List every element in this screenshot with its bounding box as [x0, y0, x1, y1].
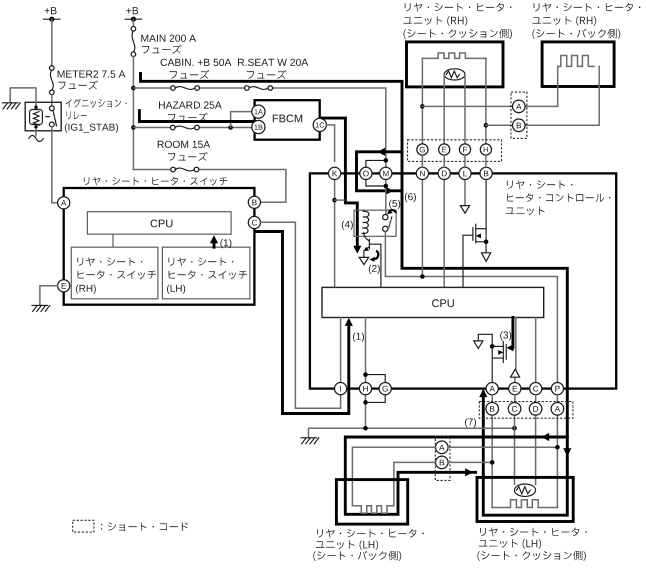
label sw RH line1 [77, 257, 142, 266]
thick signal path (1) switch to control CPU [256, 232, 349, 414]
short connector dotted box (LH) [435, 436, 450, 480]
heater unit LH back box [336, 480, 407, 524]
wire ground rail (thermistor/thermostat common) [309, 428, 515, 437]
connector dotted box (7) [479, 402, 573, 419]
wire D to CPU [443, 180, 445, 288]
pin K [329, 167, 341, 179]
wire relay coil bottom to body ground [35, 129, 37, 136]
legend short-connector symbol [73, 520, 94, 532]
junction H line on ground rail [363, 426, 368, 431]
pin D (connector 7) [529, 403, 542, 416]
wire MOSFET source to ground triangle [485, 242, 487, 253]
wire junction to short connector B [486, 124, 513, 126]
heater unit LH cushion box [477, 477, 573, 521]
wires connector GEFH to control pins [422, 155, 486, 167]
wire CPU to pin C [535, 318, 537, 383]
fuse ROOM 15A [171, 167, 199, 172]
sensor loop H-G bottom [366, 395, 386, 403]
thick current jog around relay contacts O-M [357, 152, 403, 191]
ground triangle (MOSFET 3) [474, 341, 483, 349]
thermostat RH cushion [444, 69, 465, 80]
pin I [335, 383, 347, 395]
junction MOSFET 3 drain [490, 344, 495, 349]
pin B (connector 7) [486, 403, 499, 416]
fuse R.SEAT W 20A [245, 86, 273, 91]
ground triangle (MOSFET B) [482, 253, 491, 262]
flow arrow left on jog top [377, 148, 385, 156]
junction H loop top [363, 372, 368, 377]
wire relay contact (5) output to pin P [385, 232, 557, 383]
label RH back unit line2 [532, 16, 596, 26]
pin P [551, 383, 563, 395]
wire M line from fuse row1 through contacts [385, 158, 387, 214]
junction K line to coil feed [332, 198, 344, 203]
wire 1C to control unit pin K [326, 125, 334, 161]
heater element RH cushion [422, 53, 486, 58]
wire connector B LH right to B7 line [448, 461, 492, 463]
wire H sensor line [365, 318, 367, 429]
ground triangle (transistor 2) [359, 257, 368, 264]
wire IG1 relay output down to switch pin A [52, 127, 58, 203]
wire CPU to RH switch [112, 234, 114, 247]
ignition relay box [25, 102, 61, 131]
relay box (4)(5) [354, 210, 396, 236]
label control unit line1 [507, 180, 573, 189]
label ignition relay line1 [65, 99, 126, 108]
label sw RH line2 [78, 270, 157, 279]
actuation arrow (5) [387, 209, 396, 214]
label RH cushion unit line1 [405, 3, 512, 12]
relay contact bypass loop O-M [366, 160, 386, 186]
label LH cushion unit line2 [479, 539, 541, 549]
flow arrow down near heater LH [563, 448, 571, 456]
thick current path HAZARD feed [139, 111, 254, 122]
heater switch RH sub-box [71, 247, 158, 299]
rear seat heater control unit box [310, 173, 616, 388]
pin C (control) [530, 383, 542, 395]
wire E pin to connector C7 and thermostat [514, 395, 516, 485]
label RH back unit line1 [534, 3, 641, 12]
ground (rail) [301, 438, 319, 444]
fuse HAZARD 25A [171, 125, 200, 130]
wire K to CPU [334, 180, 336, 288]
actuation arrow (2) [369, 251, 378, 262]
label LH cushion unit line3 [477, 551, 586, 561]
sensor loop H-G top [366, 375, 386, 383]
pin H [359, 383, 371, 395]
thick current loop to LH back heater [345, 437, 567, 514]
rear seat heater switch box [64, 188, 255, 305]
relay coil (ignition relay) [30, 105, 43, 129]
wire CPU to signal triangle above E [514, 318, 517, 383]
label METER2 fuse jp [58, 80, 98, 89]
FBCM box [255, 100, 320, 140]
wire P pin to connector A7 and element [556, 395, 558, 508]
label LH back unit line3 [313, 551, 401, 561]
wire row2 junction up to FBCM 1A [231, 112, 252, 128]
pin M [380, 167, 392, 179]
wire +B right to MAIN fuse [132, 19, 134, 26]
wire RH back element to connector A [525, 66, 558, 106]
wire fuse row3 ROOM to switch pin B [133, 170, 286, 203]
fuse CABIN. +B 50A [171, 86, 200, 91]
pin E (control) [509, 383, 521, 395]
short connector pin A (RH) [513, 100, 526, 113]
pin O [360, 167, 372, 179]
label RH cushion unit line3 [404, 29, 513, 39]
junction cushion element to connector A [420, 104, 425, 109]
pin G (control) [379, 383, 391, 395]
transistor Q (2) [364, 233, 370, 258]
wire junction to short connector A [422, 105, 512, 107]
label LH cushion unit line1 [480, 528, 587, 537]
wire I to CPU [340, 318, 342, 383]
heater unit RH cushion box [407, 42, 504, 87]
CPU box (control unit) [322, 287, 544, 317]
label legend text [101, 522, 188, 531]
pin H (connector) [480, 144, 491, 155]
label RH cushion unit line2 [404, 16, 468, 26]
pin N [416, 167, 428, 179]
short connector dotted box (RH) [511, 92, 527, 138]
label RH back unit line3 [532, 29, 620, 39]
MOSFET (B channel heater RH) [463, 224, 486, 287]
wire connector A LH right to A7 line [448, 446, 557, 448]
fuse MAIN 200 A [131, 27, 136, 57]
junction main bus row2 [131, 125, 136, 130]
junction C7 line on ground rail [512, 426, 517, 431]
junction A7 [555, 445, 560, 450]
heater switch LH sub-box [162, 247, 250, 299]
wire fuse row2 to FBCM 1B [133, 127, 252, 129]
junction cushion element to connector B [484, 123, 489, 128]
wire L to signal triangle [464, 180, 466, 206]
relay contact (5) [383, 215, 392, 232]
pin E (connector) [439, 144, 450, 155]
wire C pin to connector D7 and thermostat [535, 395, 537, 485]
pin B (control top) [480, 167, 492, 179]
thermostat LH cushion [514, 484, 535, 496]
label HAZARD fuse jp [168, 113, 208, 122]
wire RH back element to connector B [525, 66, 599, 125]
pin L [459, 167, 471, 179]
pin 1B [252, 120, 265, 133]
wire A pin to connector B7 and element [491, 395, 493, 508]
junction row2 to 1A [228, 125, 233, 130]
pin 1A [252, 105, 265, 118]
pin A (control) [486, 383, 498, 395]
label CABIN fuse jp [170, 70, 210, 79]
power +B right [125, 7, 142, 22]
signal triangle above E [511, 369, 520, 377]
relay contact (ignition relay) [46, 106, 57, 127]
label control unit line2 [507, 193, 610, 202]
junction below M [384, 184, 389, 189]
wire N to contact output rail [421, 180, 423, 277]
flow arrow down into transistor ground [353, 246, 361, 254]
pin 1C [313, 118, 326, 131]
flow arrow left on loop top [541, 433, 549, 441]
label MAIN fuse jp [142, 45, 182, 54]
wire element lead to G [421, 58, 423, 143]
wire switch E to ground [40, 286, 58, 305]
power +B left [44, 7, 61, 22]
wire fuse row1 [133, 88, 385, 158]
pin G (connector) [417, 144, 428, 155]
thick signal path (3) CPU to MOSFET gate [500, 318, 513, 352]
wire +B left down to METER2 fuse [51, 19, 53, 65]
junction B7 [490, 460, 495, 465]
signal arrow (1) LH switch to CPU [210, 235, 232, 248]
fuse METER2 7.5 A [50, 66, 55, 95]
junction main bus row1 [131, 86, 136, 91]
flow arrow up return into control unit [479, 389, 487, 397]
pin E (switch) [58, 280, 70, 292]
label RSEAT fuse jp [247, 70, 287, 79]
short connector pin B (LH) [436, 456, 449, 469]
label LH back unit line1 [317, 529, 424, 538]
pin A (switch) [58, 197, 70, 209]
label ROOM fuse jp [168, 152, 208, 161]
pin D [438, 167, 450, 179]
label sw LH line2 [169, 270, 248, 279]
flow arrow right on jog bottom [386, 187, 394, 195]
heater element LH back [352, 506, 394, 513]
wire main bus vertical [132, 57, 134, 170]
MOSFET (3) (LH heater) with ground [478, 334, 506, 382]
label control unit line3 [506, 207, 545, 216]
junction N line on rail [420, 274, 425, 279]
heater element RH back [558, 56, 594, 67]
flow arrow (1) into control CPU [345, 318, 364, 342]
wire transistor base to CPU [369, 244, 381, 287]
junction MOSFET source [484, 240, 489, 245]
wire connector B LH left to back element [394, 462, 436, 505]
thick current path CABIN feed [141, 73, 568, 515]
label sw LH line1 [169, 257, 234, 266]
wire METER2 fuse to ignition relay [51, 95, 53, 106]
pin C (connector 7) [508, 403, 521, 416]
signal triangle below L [460, 206, 469, 214]
wire element lead to H [485, 58, 487, 143]
heater element LH cushion [492, 500, 557, 508]
short connector pin A (LH) [436, 441, 449, 454]
wire thermostat lead to F [464, 74, 466, 143]
label LH back unit line2 [316, 540, 378, 550]
wire switch C to control unit pin I [261, 222, 341, 408]
wire B down through MOSFET node [485, 180, 487, 242]
CPU box (switch) [87, 212, 231, 235]
pin C (switch) [248, 216, 260, 228]
label ignition relay line2 [67, 112, 87, 120]
thick current path 1C to relay coil [323, 118, 358, 247]
wire thermostat lead to E [443, 74, 445, 143]
wire connector A LH left to back element [352, 447, 435, 505]
flow arrow right into LH cushion heater [465, 468, 473, 476]
pin B (switch) [248, 196, 260, 208]
short connector pin B (RH) [513, 119, 526, 132]
label heater switch title [84, 177, 228, 186]
pin F (connector) [459, 144, 470, 155]
body ground squiggle [29, 136, 43, 142]
heater unit RH back box [542, 42, 614, 87]
junction above M [384, 158, 389, 163]
ground (switch E) [32, 305, 50, 311]
junction H loop bottom [363, 400, 368, 405]
pin A (connector 7) [551, 403, 564, 416]
wire relay coil to chassis ground [10, 88, 36, 105]
connector dashed box G E F H [408, 140, 502, 162]
ground (ignition relay coil top) [3, 103, 21, 109]
relay coil (4) [362, 210, 369, 233]
